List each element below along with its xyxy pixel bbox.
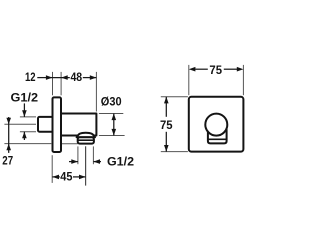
svg-text:27: 27 (2, 153, 13, 167)
svg-text:Ø30: Ø30 (101, 94, 122, 108)
svg-text:75: 75 (209, 63, 222, 77)
svg-text:G1/2: G1/2 (107, 155, 134, 169)
svg-text:48: 48 (70, 70, 82, 84)
svg-text:G1/2: G1/2 (11, 90, 39, 104)
svg-text:12: 12 (25, 70, 36, 84)
svg-text:75: 75 (160, 118, 173, 132)
svg-text:45: 45 (60, 170, 73, 184)
